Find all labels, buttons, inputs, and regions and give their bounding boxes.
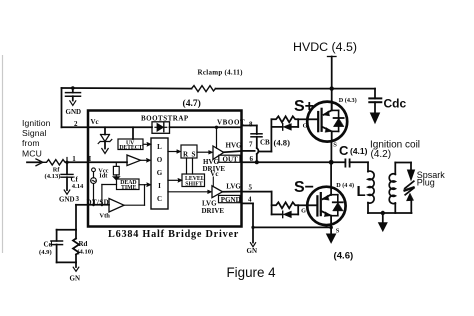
svg-text:Idt: Idt bbox=[99, 173, 108, 180]
svg-text:5: 5 bbox=[249, 184, 253, 192]
svg-text:S: S bbox=[336, 228, 340, 235]
svg-text:G: G bbox=[301, 208, 306, 215]
svg-text:MCU: MCU bbox=[22, 148, 42, 158]
svg-text:Cdc: Cdc bbox=[384, 96, 407, 110]
svg-text:(4.7): (4.7) bbox=[183, 98, 201, 109]
svg-text:Rd: Rd bbox=[79, 240, 88, 248]
svg-text:C: C bbox=[157, 195, 162, 203]
svg-text:4: 4 bbox=[248, 196, 252, 204]
svg-text:7: 7 bbox=[249, 141, 253, 149]
svg-text:CB: CB bbox=[260, 139, 270, 147]
svg-text:(4.2): (4.2) bbox=[371, 149, 392, 160]
svg-text:L6384 Half Bridge Driver: L6384 Half Bridge Driver bbox=[108, 229, 239, 240]
svg-text:Plug: Plug bbox=[417, 178, 435, 188]
svg-text:(4.1): (4.1) bbox=[350, 146, 368, 156]
svg-text:O: O bbox=[157, 156, 163, 164]
svg-text:3: 3 bbox=[76, 195, 80, 203]
svg-text:Vc: Vc bbox=[91, 118, 99, 126]
svg-text:SHIFT: SHIFT bbox=[185, 182, 203, 188]
svg-text:Rclamp (4.11): Rclamp (4.11) bbox=[198, 69, 244, 77]
svg-text:TIME: TIME bbox=[121, 185, 137, 191]
svg-text:(4.10): (4.10) bbox=[77, 248, 93, 255]
svg-text:L: L bbox=[357, 183, 366, 200]
svg-text:PGND: PGND bbox=[221, 196, 241, 204]
svg-text:HVG: HVG bbox=[226, 142, 243, 150]
svg-text:LVG: LVG bbox=[226, 183, 241, 191]
svg-text:4.14: 4.14 bbox=[72, 183, 84, 190]
svg-text:8: 8 bbox=[249, 121, 253, 129]
svg-text:from: from bbox=[22, 138, 40, 148]
svg-text:VBOOT: VBOOT bbox=[217, 118, 245, 126]
svg-text:(4.13): (4.13) bbox=[45, 173, 61, 180]
svg-text:S+: S+ bbox=[294, 98, 314, 115]
svg-text:GN: GN bbox=[70, 275, 81, 283]
svg-text:(4.9): (4.9) bbox=[39, 249, 52, 256]
svg-text:I: I bbox=[158, 182, 161, 190]
svg-text:DETECT: DETECT bbox=[119, 145, 142, 151]
svg-text:C: C bbox=[339, 143, 349, 158]
svg-text:G: G bbox=[157, 169, 163, 177]
svg-text:Ignition: Ignition bbox=[22, 118, 51, 128]
svg-text:Figure 4: Figure 4 bbox=[227, 265, 277, 280]
svg-text:DRIVE: DRIVE bbox=[202, 207, 225, 215]
svg-text:D (4 4): D (4 4) bbox=[336, 182, 354, 189]
svg-text:Signal: Signal bbox=[22, 128, 47, 138]
svg-text:2: 2 bbox=[74, 120, 78, 128]
svg-text:6: 6 bbox=[250, 155, 254, 163]
svg-text:DT/SD: DT/SD bbox=[87, 199, 110, 207]
svg-text:S: S bbox=[192, 151, 196, 159]
svg-text:GN: GN bbox=[247, 247, 258, 255]
svg-text:GND: GND bbox=[66, 108, 82, 116]
svg-text:OUT: OUT bbox=[223, 155, 239, 163]
svg-text:(4.6): (4.6) bbox=[334, 251, 354, 262]
svg-text:GND: GND bbox=[59, 196, 75, 204]
svg-text:S: S bbox=[333, 141, 337, 148]
svg-text:D (4.3): D (4.3) bbox=[339, 97, 357, 104]
svg-text:Vth: Vth bbox=[99, 213, 110, 220]
svg-text:G: G bbox=[303, 123, 308, 130]
svg-text:BOOTSTRAP: BOOTSTRAP bbox=[141, 115, 189, 123]
svg-text:Vc: Vc bbox=[210, 170, 218, 178]
svg-text:S−: S− bbox=[294, 179, 314, 196]
svg-text:(4.8): (4.8) bbox=[274, 138, 291, 148]
svg-text:1: 1 bbox=[72, 155, 76, 163]
svg-text:L: L bbox=[157, 143, 162, 151]
svg-text:I: I bbox=[89, 155, 92, 163]
svg-text:Cd: Cd bbox=[44, 241, 53, 249]
svg-text:HVDC (4.5): HVDC (4.5) bbox=[293, 40, 357, 54]
